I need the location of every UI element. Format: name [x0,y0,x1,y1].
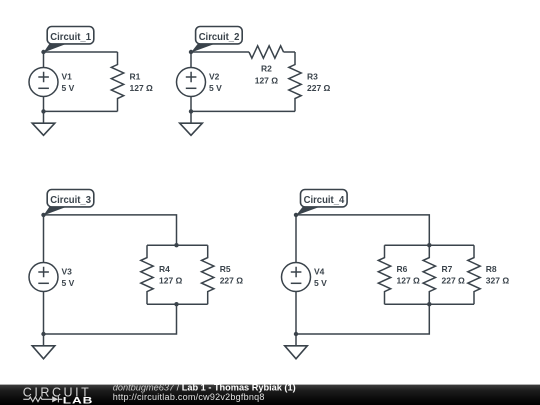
resistor R6 [378,245,420,304]
node E (top-left circuit 3) [41,213,45,217]
wire top-left circuit 2 [191,51,249,53]
ground circuit 1 [32,111,55,135]
resistor R8 [468,245,510,304]
wire top-right circuit 2 [284,51,296,53]
svg-text:327 Ω: 327 Ω [486,276,510,286]
svg-text:5 V: 5 V [62,83,75,93]
svg-text:http://circuitlab.com/cw92v2bg: http://circuitlab.com/cw92v2bgfbnq8 [113,392,265,402]
wire top rail circuit 4 [385,244,475,246]
node K (parallel bottom circuit 4) [427,302,431,306]
voltage source V4 [282,263,328,292]
resistor R1 [111,52,153,111]
svg-text:R1: R1 [130,72,141,82]
label Circuit_3 [44,190,94,216]
logo wire-resistor-diode glyph [23,396,62,402]
resistor R7 [423,245,465,304]
svg-text:5 V: 5 V [62,278,75,288]
resistor R2 [249,46,284,86]
svg-text:227 Ω: 227 Ω [307,83,331,93]
node G (parallel bottom circuit 3) [174,302,178,306]
svg-text:V4: V4 [314,267,325,277]
svg-text:R2: R2 [261,63,272,73]
svg-text:227 Ω: 227 Ω [220,276,244,286]
node A (top-left circuit 1) [41,50,45,54]
voltage source V1 [29,68,75,97]
label Circuit_2 [191,27,242,53]
voltage source V3 [29,263,75,292]
ground circuit 2 [180,111,203,135]
wire top circuit 1 [44,51,118,53]
node I (top-left circuit 4) [294,213,298,217]
svg-text:127 Ω: 127 Ω [130,83,154,93]
wire V1 top [43,52,45,68]
svg-text:Circuit_3: Circuit_3 [50,195,91,206]
svg-text:127 Ω: 127 Ω [255,75,279,85]
wire V3 top [43,215,45,263]
svg-text:R6: R6 [397,264,408,274]
wire V4 bottom [295,292,297,335]
svg-text:Circuit_4: Circuit_4 [304,195,345,206]
svg-text:R4: R4 [159,264,170,274]
node C (top-left circuit 2) [189,50,193,54]
node B (bottom circuit 1) [41,109,45,113]
svg-text:Circuit_1: Circuit_1 [50,32,91,43]
ground circuit 4 [285,334,308,359]
svg-text:V2: V2 [209,72,220,82]
svg-text:V3: V3 [62,267,73,277]
wire bottom rail circuit 3 [147,303,208,305]
svg-text:R7: R7 [442,264,453,274]
ground circuit 3 [32,334,55,359]
wire V1 bottom [43,97,45,112]
svg-text:V1: V1 [62,72,73,82]
node F (parallel top circuit 3) [174,243,178,247]
wire return circuit 3 [44,304,177,334]
svg-text:5 V: 5 V [209,83,222,93]
wire bottom rail circuit 4 [385,303,475,305]
svg-text:5 V: 5 V [314,278,327,288]
resistor R4 [141,245,183,304]
svg-text:127 Ω: 127 Ω [159,276,183,286]
wire bottom circuit 2 [191,110,295,112]
svg-text:127 Ω: 127 Ω [397,276,421,286]
wire top circuit 3 [44,215,177,245]
svg-text:R5: R5 [220,264,231,274]
label Circuit_4 [296,190,347,216]
svg-text:227 Ω: 227 Ω [442,276,466,286]
wire V2 bottom [190,97,192,112]
voltage source V2 [177,68,223,97]
wire bottom circuit 1 [44,110,118,112]
svg-text:R8: R8 [486,264,497,274]
svg-text:LAB: LAB [63,396,93,405]
label Circuit_1 [44,27,94,53]
svg-text:R3: R3 [307,72,318,82]
resistor R5 [202,245,244,304]
node D (bottom circuit 2) [189,109,193,113]
node L (bottom circuit 4) [294,332,298,336]
wire return circuit 4 [296,304,429,334]
svg-text:Circuit_2: Circuit_2 [199,32,240,43]
wire V2 top [190,52,192,68]
wire top rail circuit 3 [147,244,208,246]
wire V4 top [295,215,297,263]
footer bar [0,383,540,405]
wire V3 bottom [43,292,45,335]
node J (parallel top circuit 4) [427,243,431,247]
wire top circuit 4 [296,215,429,245]
resistor R3 [289,52,331,111]
node H (bottom circuit 3) [41,332,45,336]
